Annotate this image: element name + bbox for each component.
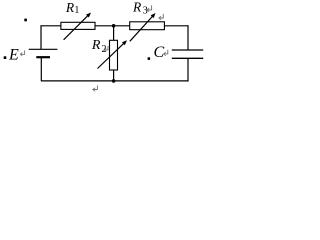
- battery E (short thick plate): [36, 56, 50, 58]
- wire R2 branch upper: [113, 26, 115, 41]
- wire R2 branch lower: [113, 70, 115, 81]
- wire top-right segment: [164, 25, 188, 27]
- svg-text:R: R: [65, 0, 75, 15]
- resistor R2 (box): [110, 40, 118, 70]
- bullet top-left: [24, 19, 27, 22]
- resistor R1 (box): [61, 22, 95, 29]
- paragraph mark below bottom wire: [93, 86, 98, 92]
- wire right branch lower (capacitor to bottom): [187, 58, 189, 81]
- wire left branch upper (corner to battery): [40, 25, 42, 49]
- capacitor C (top plate): [172, 49, 203, 51]
- svg-text:E: E: [8, 46, 19, 63]
- wire right branch upper (corner to capacitor): [187, 25, 189, 50]
- node junction top (dot): [112, 24, 116, 28]
- paragraph mark after C: [164, 50, 168, 56]
- resistor R3 (arrow head): [151, 13, 156, 18]
- paragraph mark right of R3 arrow: [159, 14, 163, 20]
- resistor R1 (arrow head): [86, 13, 91, 18]
- capacitor C (bottom plate): [172, 57, 203, 59]
- svg-text:R: R: [91, 38, 101, 53]
- svg-text:3: 3: [143, 5, 148, 16]
- paragraph mark after E: [20, 50, 24, 56]
- battery E (long plate): [29, 48, 58, 50]
- wire top-middle segment (R1 to junction to R3): [95, 25, 130, 27]
- paragraph mark after R2: [104, 46, 108, 52]
- bullet before E: [4, 56, 7, 59]
- resistor R3 (box): [130, 22, 165, 30]
- resistor R1 (arrow shaft): [64, 15, 89, 40]
- resistor R2 (arrow shaft): [98, 43, 125, 68]
- svg-text:C: C: [154, 44, 165, 61]
- svg-text:2: 2: [102, 44, 107, 55]
- wire left branch lower (battery to bottom): [40, 57, 42, 81]
- paragraph mark after R3: [147, 5, 152, 11]
- svg-text:1: 1: [74, 5, 79, 16]
- resistor R3 (arrow shaft): [130, 16, 153, 41]
- wire bottom segment: [41, 80, 188, 82]
- resistor R2 (arrow head): [122, 40, 127, 45]
- node junction bottom (dot): [112, 79, 116, 83]
- svg-text:R: R: [132, 0, 142, 15]
- bullet before C: [148, 57, 151, 60]
- wire top-left segment: [41, 25, 61, 27]
